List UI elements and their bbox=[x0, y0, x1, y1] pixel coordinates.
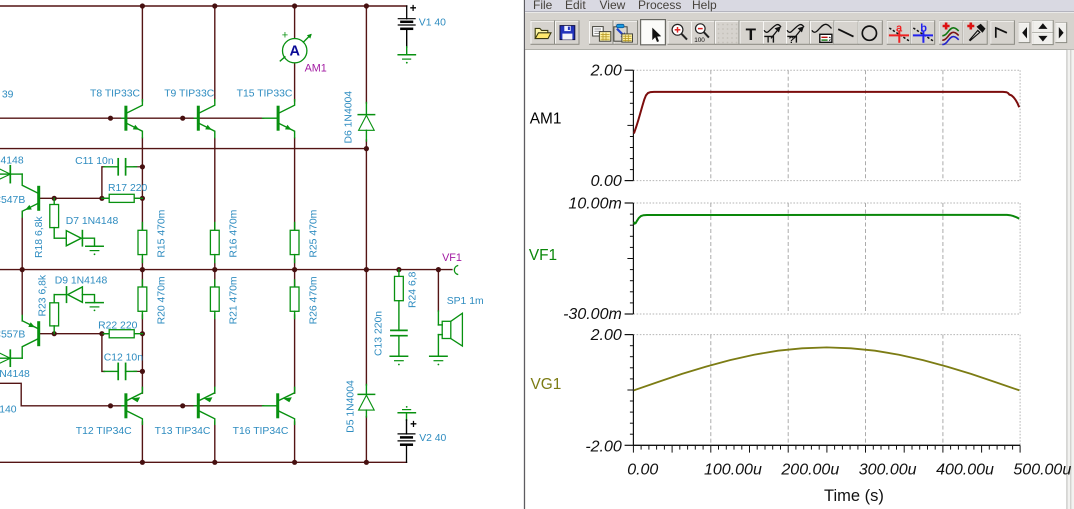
svg-text:R15 470m: R15 470m bbox=[156, 210, 167, 258]
svg-text:T8 TIP33C: T8 TIP33C bbox=[90, 88, 141, 99]
svg-text:AM1: AM1 bbox=[530, 111, 562, 128]
icon cursor a bbox=[889, 22, 909, 42]
svg-text:T9 TIP33C: T9 TIP33C bbox=[164, 88, 215, 99]
svg-text:+: + bbox=[410, 419, 417, 431]
resistor R22 bbox=[102, 330, 142, 338]
svg-text:R16 470m: R16 470m bbox=[229, 210, 240, 258]
spinner down bbox=[1038, 36, 1047, 42]
resistor R25 bbox=[290, 223, 299, 263]
wire top +V rail bbox=[0, 5, 407, 7]
transistor C557B bbox=[22, 315, 39, 358]
svg-text:b: b bbox=[920, 22, 927, 34]
transistor T13 bbox=[194, 387, 215, 424]
wire column2 rail to R21 bbox=[214, 270, 216, 287]
svg-text:300.00u: 300.00u bbox=[859, 461, 917, 478]
toolbar bbox=[531, 20, 1067, 47]
icon line tool bbox=[838, 29, 853, 36]
wire C12 right to column1 bbox=[134, 370, 142, 372]
wire C547B base row bbox=[40, 197, 109, 199]
x tick labels bbox=[627, 461, 1071, 478]
svg-text:T: T bbox=[765, 35, 771, 45]
icon save bbox=[560, 26, 575, 40]
junction top rail x366 bbox=[364, 3, 369, 8]
resistor R24 bbox=[395, 270, 404, 331]
wire column3 rail to R26 bbox=[294, 270, 296, 287]
junction C12 R22 left bbox=[99, 331, 104, 336]
wire column1 collector T8 bbox=[141, 6, 143, 101]
svg-text:VF1: VF1 bbox=[442, 252, 462, 264]
wire column1 rail to R20 bbox=[141, 270, 143, 287]
capacitor C11 bbox=[104, 159, 137, 175]
wire column4 top rail to D6 bbox=[365, 6, 367, 103]
window left border bbox=[523, 0, 525, 509]
wire bias rail bbox=[0, 148, 366, 150]
svg-text:T15 TIP33C: T15 TIP33C bbox=[237, 88, 293, 99]
svg-text:a: a bbox=[896, 22, 903, 34]
svg-text:SP1 1m: SP1 1m bbox=[447, 296, 484, 307]
svg-text:400.00u: 400.00u bbox=[936, 461, 994, 478]
svg-text:C13 220n: C13 220n bbox=[373, 311, 384, 356]
plot1 frame dotted bbox=[633, 70, 1020, 180]
svg-text:C11 10n: C11 10n bbox=[75, 156, 114, 167]
diode D9 bbox=[54, 287, 94, 303]
svg-text:R18 6,8k: R18 6,8k bbox=[34, 216, 45, 258]
svg-text:10.00m: 10.00m bbox=[568, 195, 621, 212]
svg-text:?: ? bbox=[789, 35, 795, 46]
wire column4 D5 to bottom rail bbox=[365, 417, 367, 463]
capacitor C13 bbox=[391, 330, 407, 356]
junction output rail x215 bbox=[212, 267, 217, 272]
icon waveform query bbox=[787, 25, 804, 47]
svg-text:R21 470m: R21 470m bbox=[229, 276, 240, 324]
plot1 y-axis bbox=[625, 70, 634, 180]
svg-text:2.00: 2.00 bbox=[590, 327, 622, 344]
transistor T15 bbox=[263, 100, 295, 138]
svg-text:R23 6,8k: R23 6,8k bbox=[37, 274, 48, 316]
junction C11 column1 bbox=[140, 164, 145, 169]
svg-text:500.00u: 500.00u bbox=[1013, 461, 1071, 478]
svg-text:200.00u: 200.00u bbox=[780, 461, 839, 478]
junction base rail x183 bbox=[180, 116, 185, 121]
svg-text:A: A bbox=[289, 44, 300, 60]
icon autoscale corner bbox=[996, 28, 1007, 38]
wire column1 R15 to rail bbox=[141, 259, 143, 270]
wire column2 R21 to T13 bbox=[214, 315, 216, 393]
icon circle tool bbox=[862, 26, 876, 40]
svg-text:4148: 4148 bbox=[1, 155, 24, 166]
plot3 x-axis bbox=[633, 445, 1020, 452]
wire V1 positive lead corner bbox=[406, 6, 408, 19]
junction bottom rail x295 bbox=[292, 460, 297, 465]
wire C557B base row bbox=[40, 333, 109, 335]
plot3 frame dotted bbox=[633, 335, 1020, 446]
wire column3 T16 collector to rail bbox=[294, 422, 296, 462]
transistor T12 bbox=[122, 387, 142, 424]
plot2 gridlines bbox=[711, 203, 943, 314]
plots bbox=[529, 63, 1071, 505]
plot client area bbox=[526, 50, 1067, 509]
svg-text:C547B: C547B bbox=[0, 195, 25, 206]
junction base rail x110 bbox=[108, 116, 113, 121]
wire C11 left bend bbox=[102, 167, 105, 199]
junction output rail emitters bbox=[20, 267, 25, 272]
svg-text:View: View bbox=[600, 0, 626, 12]
resistor R15 bbox=[138, 223, 147, 263]
junction output rail x142 bbox=[140, 267, 145, 272]
wire column3 R25 to rail bbox=[294, 259, 296, 270]
wire PNP base rail bbox=[0, 383, 264, 406]
node VF1 output pin bbox=[454, 266, 457, 275]
svg-text:C557B: C557B bbox=[0, 330, 25, 341]
svg-text:VG1: VG1 bbox=[531, 376, 562, 393]
capacitor C12 bbox=[104, 363, 137, 379]
resistor R21 bbox=[210, 280, 219, 319]
svg-text:0.00: 0.00 bbox=[627, 461, 658, 478]
svg-text:140: 140 bbox=[0, 404, 17, 415]
icon diagram bbox=[812, 24, 832, 42]
svg-text:V1 40: V1 40 bbox=[419, 17, 446, 28]
curve VG1 bbox=[634, 347, 1020, 390]
icon zoom out 100 bbox=[694, 24, 709, 44]
wire C12 left bend bbox=[102, 334, 105, 372]
junction bias rail D6 bbox=[364, 146, 369, 151]
svg-text:File: File bbox=[533, 0, 553, 12]
wire bottom -V rail bbox=[0, 461, 407, 463]
junction C12 column1 bbox=[140, 369, 145, 374]
ground of C13 bbox=[390, 356, 407, 365]
svg-text:R20 470m: R20 470m bbox=[156, 276, 167, 324]
wire column2 collector T9 bbox=[214, 6, 216, 101]
pressed select-cursor button bbox=[641, 20, 666, 45]
arrow left bbox=[1022, 27, 1027, 39]
ground of D9 bbox=[86, 303, 103, 312]
wire column3 ammeter to T15 bbox=[294, 63, 296, 101]
icon open file bbox=[535, 28, 551, 38]
transistor C547B bbox=[22, 174, 39, 217]
wire column1 emitter to R15 bbox=[141, 138, 143, 230]
junction PNP base rail x110 bbox=[108, 403, 113, 408]
junction R22 column1 bbox=[140, 331, 145, 336]
wire column3 R26 to T16 bbox=[294, 315, 296, 393]
wire speaker feed bbox=[437, 270, 439, 311]
svg-text:T12 TIP34C: T12 TIP34C bbox=[76, 426, 132, 437]
icon paste bbox=[614, 24, 633, 42]
transistor T8 bbox=[122, 100, 142, 138]
ground of V2 (inverted) bbox=[398, 406, 415, 420]
wire column3 rail to ammeter bbox=[294, 6, 296, 38]
resistor R23 bbox=[50, 295, 59, 334]
wire C11 right to column1 bbox=[134, 166, 142, 168]
junction top rail x142 bbox=[140, 3, 145, 8]
svg-text:-2.00: -2.00 bbox=[585, 438, 622, 455]
wire column1 T12 collector to rail bbox=[141, 422, 143, 462]
window body bbox=[525, 0, 1074, 509]
svg-text:39: 39 bbox=[2, 89, 14, 100]
svg-text:D6 1N4004: D6 1N4004 bbox=[344, 91, 355, 144]
svg-text:R17 220: R17 220 bbox=[108, 183, 148, 194]
resistor R26 bbox=[290, 280, 299, 319]
svg-text:0.00: 0.00 bbox=[591, 173, 622, 190]
toolbar button shells bbox=[531, 21, 1067, 45]
svg-text:+: + bbox=[410, 3, 417, 15]
menu bar bbox=[525, 0, 1074, 11]
junction bottom rail x142 bbox=[140, 460, 145, 465]
svg-text:VF1: VF1 bbox=[529, 247, 557, 264]
svg-text:Help: Help bbox=[692, 0, 717, 12]
junction output rail R24 bbox=[396, 267, 401, 272]
junction bottom rail x366 bbox=[364, 460, 369, 465]
icon grid disabled bbox=[718, 24, 738, 44]
junction output rail x295 bbox=[292, 267, 297, 272]
junction output rail SP1 bbox=[436, 267, 441, 272]
resistor R20 bbox=[138, 280, 147, 319]
icon copy bbox=[593, 27, 611, 42]
wire column1 R20 to T12 bbox=[141, 315, 143, 393]
curve VF1 bbox=[634, 215, 1019, 224]
resistor R18 bbox=[50, 198, 59, 238]
diode D7 bbox=[54, 231, 94, 247]
icon cursor b bbox=[913, 22, 933, 42]
resistor R16 bbox=[210, 223, 219, 263]
svg-text:N4148: N4148 bbox=[0, 369, 30, 380]
arrow right bbox=[1059, 27, 1064, 39]
resistor R17 bbox=[102, 194, 142, 202]
svg-text:-30.00m: -30.00m bbox=[563, 306, 622, 323]
svg-text:D5 1N4004: D5 1N4004 bbox=[346, 380, 357, 433]
junction top rail x215 bbox=[212, 3, 217, 8]
wire output rail bbox=[0, 269, 452, 271]
junction R18 base row bbox=[52, 196, 57, 201]
ground of D7 bbox=[86, 246, 103, 255]
wire column2 R16 to rail bbox=[214, 259, 216, 270]
svg-text:Time (s): Time (s) bbox=[824, 487, 884, 505]
wire column3 emitter to R25 bbox=[294, 138, 296, 230]
plot3 gridlines bbox=[711, 335, 943, 446]
curve AM1 bbox=[634, 92, 1019, 134]
junction output rail x366 bbox=[364, 267, 369, 272]
diode D10 partial bbox=[0, 350, 22, 366]
speaker SP1 bbox=[438, 311, 462, 356]
junction R23 base row bbox=[52, 331, 57, 336]
ammeter AM1 bbox=[280, 30, 312, 63]
junction C11 R17 left bbox=[99, 196, 104, 201]
junction R17 column1 bbox=[140, 196, 145, 201]
ground of V1 bbox=[398, 47, 415, 64]
svg-text:AM1: AM1 bbox=[305, 62, 327, 74]
svg-text:T: T bbox=[746, 25, 757, 44]
wire R17 right to column1 bbox=[134, 197, 142, 199]
icon zoom in bbox=[672, 24, 687, 39]
svg-text:V2 40: V2 40 bbox=[419, 433, 446, 444]
svg-text:C12 10n: C12 10n bbox=[104, 353, 144, 364]
transistor T9 bbox=[194, 100, 215, 138]
svg-text:100.00u: 100.00u bbox=[704, 461, 762, 478]
battery V2 bbox=[398, 419, 417, 445]
icon edit waveform bbox=[764, 25, 781, 45]
wire V2 negative lead corner bbox=[406, 445, 408, 463]
diode D6 bbox=[358, 103, 374, 142]
wire column4 output rail to D5 bbox=[365, 270, 367, 385]
battery V1 bbox=[398, 3, 417, 47]
svg-text:D7 1N4148: D7 1N4148 bbox=[66, 216, 119, 227]
icon probe bbox=[967, 23, 985, 41]
svg-text:R26 470m: R26 470m bbox=[309, 276, 320, 324]
ground of SP1 bbox=[430, 356, 447, 365]
wire column2 emitter to R16 bbox=[214, 138, 216, 230]
svg-text:2.00: 2.00 bbox=[590, 63, 622, 80]
plot2 y-axis bbox=[625, 203, 634, 314]
junction PNP base rail x183 bbox=[180, 403, 185, 408]
plot1 gridlines bbox=[711, 70, 943, 180]
spinner up bbox=[1038, 23, 1047, 29]
diode D5 bbox=[358, 385, 374, 418]
plot2 frame dotted bbox=[633, 203, 1020, 314]
plot3 y-axis bbox=[625, 335, 634, 446]
svg-text:R24 6,8: R24 6,8 bbox=[407, 271, 418, 308]
svg-text:100: 100 bbox=[694, 37, 705, 44]
wire NPN base rail bbox=[0, 117, 264, 119]
svg-text:D9 1N4148: D9 1N4148 bbox=[55, 275, 108, 286]
svg-text:T16 TIP34C: T16 TIP34C bbox=[233, 426, 289, 437]
wire column4 bias rail to output rail bbox=[365, 149, 367, 270]
svg-text:Process: Process bbox=[638, 0, 681, 12]
svg-text:T13 TIP34C: T13 TIP34C bbox=[155, 426, 211, 437]
wire driver emitters column bbox=[21, 212, 23, 321]
svg-text:+: + bbox=[282, 30, 288, 42]
diode D8 partial bbox=[0, 166, 22, 183]
svg-text:R22 220: R22 220 bbox=[98, 320, 138, 331]
transistor T16 bbox=[263, 387, 295, 424]
junction top rail x295 bbox=[292, 3, 297, 8]
icon add curves bbox=[942, 23, 958, 45]
svg-text:R25 470m: R25 470m bbox=[309, 210, 320, 258]
wire column2 T13 collector to rail bbox=[214, 422, 216, 462]
junction bottom rail x215 bbox=[212, 460, 217, 465]
wire column4 D6 to bias rail bbox=[365, 140, 367, 149]
svg-text:Edit: Edit bbox=[565, 0, 586, 12]
